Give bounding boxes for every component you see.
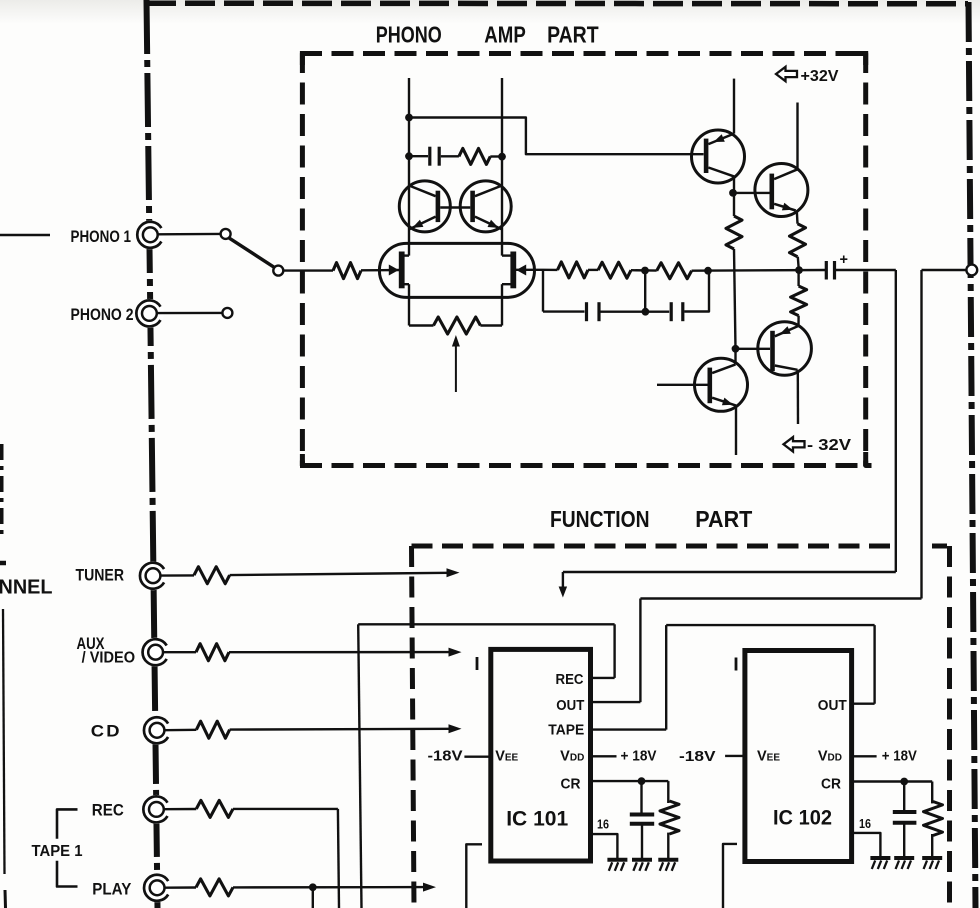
svg-text:IC 101: IC 101 xyxy=(506,807,568,831)
ground G2 xyxy=(632,858,652,862)
+32V supply arrow xyxy=(776,67,797,81)
JFET J2 gate arrow xyxy=(516,265,526,276)
wire IC101 TAPE pin xyxy=(591,728,667,730)
JFET J1 channel bar xyxy=(399,252,405,289)
wire AUX to arrow xyxy=(229,651,450,654)
wire TUNER jack xyxy=(161,574,194,577)
IC102 box xyxy=(745,651,852,862)
resistor R14 (PLAY) xyxy=(196,879,233,896)
transistor Q2 (NPN) xyxy=(755,164,808,217)
resistor R11 (AUX) xyxy=(196,644,229,661)
svg-text:TUNER: TUNER xyxy=(76,567,125,585)
capacitor C3 xyxy=(585,302,588,321)
resistor R7 xyxy=(726,216,742,249)
phono amp box corners xyxy=(302,54,314,66)
jack PLAY xyxy=(143,873,172,902)
-32V supply arrow xyxy=(784,437,805,451)
outer border top xyxy=(146,0,968,6)
node dot Q1/Q2 base xyxy=(729,189,737,197)
svg-text:PART: PART xyxy=(547,22,599,48)
wire R7 down to node F xyxy=(734,249,736,349)
resistor R5 xyxy=(598,262,631,278)
wire REC up xyxy=(613,624,615,678)
ground G3 xyxy=(658,858,678,862)
resistor R2 (source) xyxy=(434,317,481,334)
JFET J1 drain stub xyxy=(404,254,409,256)
feedback tap down from gate2 xyxy=(542,270,544,312)
transistor QA (left mirror pair) xyxy=(399,181,450,232)
wire B horizontal (to IC101 OUT) xyxy=(640,597,921,599)
trim arrow on R2 xyxy=(455,344,457,392)
ground G5 xyxy=(894,856,914,860)
wire Q4 emitter down xyxy=(797,370,800,424)
output terminal xyxy=(966,265,977,276)
wire C1 to R3 xyxy=(441,155,459,157)
wire CR IC101 xyxy=(591,780,669,782)
node dot R3 right xyxy=(498,153,506,161)
svg-text:PHONO 2: PHONO 2 xyxy=(71,306,134,324)
wire output segment xyxy=(922,269,967,271)
wire VEE IC101 xyxy=(464,756,490,758)
svg-text:REC: REC xyxy=(556,672,584,688)
wire AUX jack xyxy=(163,651,196,653)
svg-text:/ VIDEO: / VIDEO xyxy=(82,650,136,667)
svg-text:OUT: OUT xyxy=(556,698,584,714)
svg-text:-18V: -18V xyxy=(428,748,463,764)
wire pin16 IC102 xyxy=(852,833,881,858)
wire R16 bottom lead xyxy=(931,834,933,858)
wire R16 top lead xyxy=(931,782,933,804)
wire Q1 emitter-collector rail xyxy=(733,176,735,216)
jack PHONO 2 xyxy=(135,299,164,328)
node dot C1 left xyxy=(405,152,413,160)
adjacent channel wire fragment xyxy=(3,609,5,874)
switch pole contact xyxy=(221,229,231,239)
wire TAPE right xyxy=(666,624,874,626)
wire Q4 base xyxy=(736,348,771,350)
resistor R6 xyxy=(657,263,692,279)
wire from PHONO 2 xyxy=(157,312,222,315)
wire into PHONO 1 xyxy=(0,234,50,236)
dual JFET U1 envelope xyxy=(379,243,534,297)
resistor R15 (CR net) xyxy=(660,801,679,834)
capacitor C1 xyxy=(428,147,431,166)
wire switch to R1 xyxy=(283,269,333,271)
wire PLAY row xyxy=(233,886,425,889)
wire jack to switch pole xyxy=(158,233,221,236)
svg-text:NNEL: NNEL xyxy=(0,577,53,599)
left margin dash xyxy=(0,561,6,566)
phono amp box bottom xyxy=(300,463,872,468)
wire node E up to node B xyxy=(644,271,646,312)
svg-text:CD: CD xyxy=(91,722,122,740)
node E dot xyxy=(642,308,650,316)
ground G4 xyxy=(870,856,890,860)
wire A arrow down xyxy=(562,572,564,589)
resistor R9 xyxy=(791,286,807,316)
wire TUNER to arrow xyxy=(230,573,448,575)
resistor R4 xyxy=(558,262,589,278)
resistor R10 (TUNER) xyxy=(194,567,230,584)
node A dot (drain rail top) xyxy=(405,114,413,122)
wire REC jack xyxy=(164,808,196,811)
wire C6 top lead xyxy=(903,782,905,811)
wire R4-R5 xyxy=(588,269,598,271)
wire VDD IC101 xyxy=(591,755,617,757)
drain rail left (line1) xyxy=(408,78,410,243)
jack TUNER xyxy=(139,561,168,590)
node D dot xyxy=(795,266,803,274)
wire R6 to C2 xyxy=(692,269,826,272)
JFET J2 drain stub xyxy=(502,254,511,256)
svg-text:+ 18V: + 18V xyxy=(621,749,657,765)
wire Q5 collector up xyxy=(734,349,736,365)
wire R5 to node B xyxy=(631,269,657,272)
capacitor C2 (output, polarized) xyxy=(825,261,828,280)
capacitor C6 xyxy=(893,810,917,814)
wire IC101 OUT pin xyxy=(591,701,641,703)
JFET J1 gate arrow xyxy=(389,265,399,276)
function box left xyxy=(412,546,415,908)
phono amp box right xyxy=(863,51,868,466)
resistor R1 (input) xyxy=(333,263,361,279)
wire CR IC102 xyxy=(852,780,933,782)
wire to C3 xyxy=(543,310,585,312)
IC101 box xyxy=(491,649,591,861)
wire R1 to FET gate xyxy=(361,269,400,272)
bracket TAPE 1 xyxy=(57,809,78,838)
transistor Q5 (NPN lower-left) xyxy=(695,358,748,411)
wire REC left xyxy=(358,623,614,625)
jack AUX/VIDEO xyxy=(141,638,170,667)
node dot CR IC101 xyxy=(638,777,646,785)
ground G1 xyxy=(607,858,627,862)
outer border right (dash-dot) xyxy=(969,2,976,908)
wire REC row down xyxy=(338,809,339,908)
arrow AUX xyxy=(449,648,462,657)
jack REC xyxy=(142,795,171,824)
svg-text:REC: REC xyxy=(92,801,124,819)
stub wire below IC102 xyxy=(723,844,737,908)
resistor R3 (feedback) xyxy=(459,148,490,164)
node F dot xyxy=(732,345,740,353)
function box right xyxy=(947,546,952,908)
wire C5 top lead xyxy=(640,781,642,813)
svg-text:+32V: +32V xyxy=(801,68,839,85)
wire R8 to main rail xyxy=(798,257,799,270)
wire B down (from output) xyxy=(920,270,922,599)
svg-text:TAPE: TAPE xyxy=(548,723,584,739)
svg-text:CR: CR xyxy=(821,777,841,793)
wire C4 to corner up xyxy=(684,271,709,312)
svg-text:FUNCTION: FUNCTION xyxy=(550,506,650,532)
jack PHONO 1 xyxy=(136,220,165,249)
svg-text:16: 16 xyxy=(859,816,871,831)
wire Q5 base xyxy=(657,384,708,386)
JFET J2 channel bar xyxy=(510,252,516,289)
wire PLAY jack xyxy=(165,886,196,889)
wire gate2 to R4 xyxy=(543,269,558,272)
svg-text:PHONO 1: PHONO 1 xyxy=(71,228,132,246)
svg-text:- 32V: - 32V xyxy=(807,437,852,454)
wire IC101 REC pin xyxy=(591,677,615,679)
arrow CD xyxy=(449,724,462,733)
transistor Q4 (PNP lower) xyxy=(758,322,812,376)
wire Q2 emitter down xyxy=(796,211,799,224)
resistor R12 (CD) xyxy=(196,721,229,738)
collector rail Q1 xyxy=(733,79,735,134)
wire A down to function part xyxy=(895,270,897,572)
resistor R8 xyxy=(790,224,806,257)
wire QA-QB base link xyxy=(440,206,470,208)
wire TAPE down to IC102 OUT xyxy=(873,625,875,704)
function box top xyxy=(412,544,892,549)
svg-text:CR: CR xyxy=(561,777,581,793)
ground G6 xyxy=(922,856,942,860)
svg-text:+ 18V: + 18V xyxy=(882,749,917,765)
outer border left (dash-dot) xyxy=(147,0,158,908)
wire A horizontal (phono feed) xyxy=(563,571,896,573)
wire TAPE up xyxy=(665,625,667,730)
svg-text:PART: PART xyxy=(695,506,752,532)
svg-text:OUT: OUT xyxy=(818,698,847,714)
wire PLAY down xyxy=(312,887,314,908)
svg-text:+: + xyxy=(840,252,848,268)
jack CD xyxy=(143,716,172,745)
switch lever xyxy=(229,238,274,267)
wire node D down xyxy=(797,270,799,286)
node dot CR IC102 xyxy=(900,778,908,786)
wire Q5 emitter down xyxy=(735,406,737,455)
wire R3 to line2 xyxy=(490,155,502,157)
wire C3 to node E xyxy=(601,311,670,313)
wire source left xyxy=(409,324,434,326)
collector rail Q2 xyxy=(796,103,798,170)
phono amp box left xyxy=(300,51,305,466)
wire CD jack xyxy=(165,729,197,732)
drain rail right (line2) xyxy=(501,78,503,243)
svg-text:PLAY: PLAY xyxy=(92,881,131,899)
wire REC down to bottom xyxy=(358,624,361,908)
capacitor C5 xyxy=(630,813,654,817)
wire R9 to Q4 xyxy=(797,316,799,326)
wire VDD IC102 xyxy=(852,755,877,757)
arrow TUNER xyxy=(447,568,460,577)
transistor Q1 (PNP upper) xyxy=(692,130,745,183)
wire C5 bottom lead xyxy=(641,825,643,860)
JFET J2 gate wire xyxy=(516,269,543,271)
svg-text:16: 16 xyxy=(597,817,609,832)
wire pin16 IC101 xyxy=(591,834,618,858)
svg-text:PHONO: PHONO xyxy=(376,22,442,48)
wire R15 bottom lead xyxy=(667,833,669,860)
wire REC row xyxy=(233,808,338,810)
phono amp box top xyxy=(300,51,866,56)
wire to C1 xyxy=(409,155,428,157)
wire top link xyxy=(409,118,704,155)
wire Q2 base xyxy=(733,192,770,194)
svg-text:IC 102: IC 102 xyxy=(773,806,832,830)
wire C2 to corner xyxy=(836,269,896,271)
resistor R16 (CR net) xyxy=(924,802,943,836)
transistor QB (right mirror pair) xyxy=(460,181,511,232)
svg-text:-18V: -18V xyxy=(679,749,716,765)
wire source right xyxy=(480,324,502,326)
wire B down to OUT pin xyxy=(639,599,641,703)
capacitor C4 xyxy=(670,302,673,321)
svg-text:AMP: AMP xyxy=(484,22,526,48)
stub wire below IC101 xyxy=(466,844,482,908)
switch contact node xyxy=(273,266,283,276)
IC101 pin 1 marker xyxy=(476,657,479,670)
IC102 pin 1 marker xyxy=(735,658,738,671)
JFET J1 source stub xyxy=(404,283,409,285)
wire CD to arrow xyxy=(230,728,450,731)
wire IC102 OUT pin xyxy=(852,703,875,705)
svg-text:TAPE 1: TAPE 1 xyxy=(32,843,83,860)
wire VEE IC102 xyxy=(725,755,745,757)
node C dot xyxy=(704,267,712,275)
PHONO 2 open contact xyxy=(222,308,232,318)
wire R15 top lead xyxy=(667,781,669,803)
resistor R13 (REC) xyxy=(196,800,233,817)
adjacent channel border fragment xyxy=(0,444,4,535)
node B dot xyxy=(641,267,649,275)
JFET J2 source stub xyxy=(502,283,511,285)
arrow PLAY xyxy=(423,883,436,892)
wire C6 bottom lead xyxy=(903,824,905,858)
node dot PLAY xyxy=(309,883,317,891)
